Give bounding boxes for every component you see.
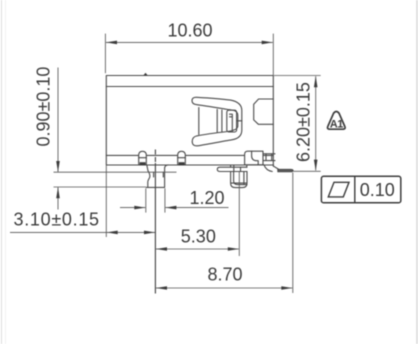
dim 6.20 line	[315, 76, 317, 170]
arrow 3.10 right (pointing right)	[144, 231, 155, 235]
pin horizontal lead (capsule)	[217, 167, 247, 171]
svg-text:0.10: 0.10	[360, 180, 395, 200]
dim 8.70 right extension	[292, 173, 294, 294]
dome 1 chord	[139, 157, 147, 159]
right leg bend	[264, 165, 272, 172]
dim 10.60 left extension line	[104, 34, 106, 74]
arrow 5.30 left	[156, 247, 167, 251]
dim 0.90 extension top	[54, 171, 177, 173]
arrow 5.30 right	[228, 247, 239, 251]
svg-text:3.10±0.15: 3.10±0.15	[14, 210, 100, 230]
svg-text:8.70: 8.70	[208, 265, 243, 285]
arrow 0.90 lower (pointing up)	[56, 187, 60, 198]
dim 0.90 line	[57, 68, 59, 172]
block notch	[252, 151, 259, 165]
weld tick on top edge	[143, 73, 148, 76]
dim 1.20 left extension	[145, 188, 147, 212]
arrow 10.60 left	[106, 41, 117, 45]
flatness parallelogram symbol	[328, 182, 349, 197]
dim 6.20 top extension line	[274, 75, 321, 77]
dim 1.20 right extension	[164, 188, 166, 212]
latch boss step	[230, 114, 233, 117]
latch inner edge	[221, 110, 223, 132]
center pin root steps	[230, 165, 232, 167]
svg-text:A1: A1	[330, 118, 343, 130]
hanging pin	[231, 171, 247, 187]
dim 3.10 line with leader	[10, 231, 155, 233]
dome 2 base block	[179, 162, 185, 165]
dim 5.30 right extension	[238, 172, 240, 256]
body left edge extension down	[105, 166, 107, 238]
latch front face right edge	[216, 109, 218, 132]
foot bevel	[274, 166, 279, 169]
dim 1.20 line left tail	[120, 207, 145, 209]
dim 0.90 extension bottom	[54, 186, 147, 188]
arrow 1.20 left (pointing right)	[134, 206, 145, 210]
leg inner edge ticks	[153, 172, 155, 177]
dim 1.20 line right tail	[165, 207, 228, 209]
latch boss	[227, 110, 237, 132]
arrow 6.20 bottom	[314, 160, 318, 171]
svg-text:0.90±0.10: 0.90±0.10	[34, 67, 54, 147]
SMT foot	[278, 169, 293, 171]
board lock dome 1	[139, 151, 147, 165]
revision triangle A1	[328, 112, 346, 131]
latch boss stem line	[237, 120, 242, 122]
dim 5.30 line	[156, 248, 239, 250]
svg-text:10.60: 10.60	[168, 21, 213, 41]
pin inner contour	[234, 172, 247, 185]
flatness feature control frame	[321, 176, 400, 203]
dim 10.60 right extension line	[272, 34, 274, 75]
page border right	[416, 0, 418, 344]
seating plane extension line right	[294, 170, 321, 172]
pin bottom band	[231, 182, 246, 184]
latch boss inner edge	[231, 117, 233, 131]
board lock dome 2	[178, 151, 186, 165]
body bottom band top line	[106, 154, 273, 156]
dim 8.70 line	[156, 287, 292, 289]
arrow 8.70 left	[156, 286, 167, 290]
dim 10.60 line	[106, 41, 273, 43]
latch spring outer horseshoe	[192, 97, 242, 146]
page border left	[1, 0, 3, 344]
center line of left leg	[154, 150, 156, 294]
arrow 0.90 upper (pointing down)	[56, 161, 60, 172]
dome 2 chord	[178, 157, 186, 159]
body top inner line	[106, 86, 273, 88]
dome 1 base block	[140, 162, 146, 165]
right leg step bar	[263, 153, 275, 155]
svg-text:1.20: 1.20	[190, 188, 225, 208]
arrow 1.20 right (pointing left)	[165, 206, 176, 210]
pin inner right line	[243, 172, 245, 185]
arrow 8.70 right	[281, 286, 292, 290]
latch front face left edge	[198, 108, 200, 135]
arrow 10.60 right	[262, 41, 273, 45]
arrow 3.10 left (pointing left)	[107, 231, 118, 235]
raised block	[245, 151, 263, 165]
connector body outline	[106, 76, 273, 166]
svg-text:5.30: 5.30	[181, 227, 216, 247]
right pocket on body edge	[254, 99, 274, 124]
svg-text:6.20±0.15: 6.20±0.15	[294, 82, 314, 162]
arrow 6.20 top	[314, 76, 318, 87]
left leg (shield tail)	[147, 165, 150, 188]
